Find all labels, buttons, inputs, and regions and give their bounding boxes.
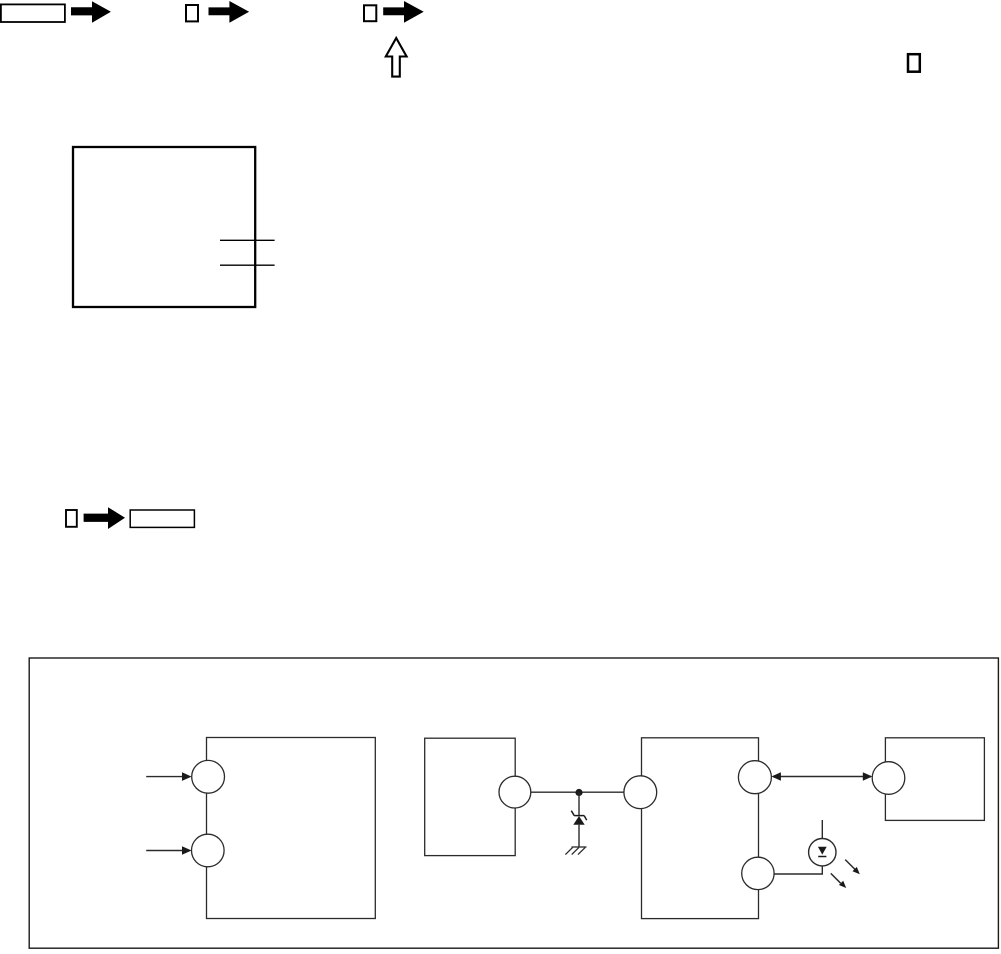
- arrowhead right: [863, 772, 873, 781]
- missing-glyph box 4: [66, 510, 77, 527]
- hollow up arrow: [386, 38, 407, 77]
- outer figure border: [29, 658, 998, 948]
- light ray arrow 1: [845, 860, 860, 875]
- input arrowhead 2: [182, 846, 192, 855]
- label box (empty): [1, 4, 65, 22]
- bold right arrow 1: [71, 1, 111, 23]
- port circle P1: [192, 760, 225, 793]
- wire node: P3 to P4: [515, 791, 641, 793]
- bold right arrow 4: [84, 507, 125, 529]
- port circle P3: [499, 776, 531, 808]
- block C rectangle: [642, 738, 759, 919]
- block D rectangle: [885, 738, 984, 821]
- port circle P5: [738, 761, 771, 794]
- LED top stub wire: [821, 820, 823, 839]
- input wire 2: [146, 850, 183, 852]
- block A rectangle: [207, 738, 376, 919]
- port circle P7: [872, 762, 905, 795]
- label box 2 (empty): [130, 510, 194, 527]
- light ray arrow 2: [831, 873, 846, 888]
- port circle P6: [742, 857, 774, 889]
- ground symbol: [565, 847, 586, 855]
- port circle P2: [192, 834, 225, 867]
- bold right arrow 2: [209, 1, 250, 23]
- tick line lower: [220, 264, 275, 266]
- block B rectangle: [425, 738, 516, 855]
- input arrowhead 1: [182, 772, 192, 781]
- missing-glyph box 3: [908, 54, 920, 71]
- zener top wire: [578, 793, 580, 816]
- LED bottom wire to P6: [774, 866, 822, 874]
- tick line upper: [220, 239, 275, 241]
- port circle P4: [624, 776, 657, 809]
- LED D2: [809, 839, 836, 866]
- double-headed wire P5 to P7: [773, 776, 871, 778]
- figure frame rectangle: [73, 147, 255, 307]
- bold right arrow 3: [383, 1, 424, 23]
- arrowhead left: [771, 772, 781, 781]
- junction dot: [575, 789, 582, 796]
- missing-glyph box 2: [364, 5, 376, 21]
- zener bottom wire: [578, 825, 580, 847]
- input wire 1: [146, 776, 183, 778]
- missing-glyph box 1: [186, 5, 198, 21]
- zener diode D1: [571, 811, 586, 825]
